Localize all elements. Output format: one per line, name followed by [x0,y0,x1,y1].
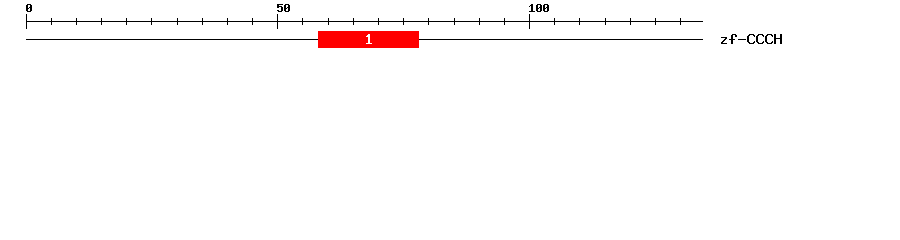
ruler axis line [26,21,703,22]
domain number 1 (white, inside box) [366,34,372,44]
domain box (red, residues 58-78) [318,31,419,48]
sequence line [26,39,703,40]
domain name label zf-CCCH [721,34,782,44]
protein domain graphic (Pfam-style): amino-acid ruler, sequence line, red domain box [0,0,900,58]
ruler label 50 [277,4,290,12]
ruler label 100 [529,4,549,12]
ruler major ticks at 0, 50, 100 [26,14,530,29]
ruler label 0 [26,4,32,12]
ruler minor ticks every 5 aa [51,18,681,25]
background [0,0,900,58]
